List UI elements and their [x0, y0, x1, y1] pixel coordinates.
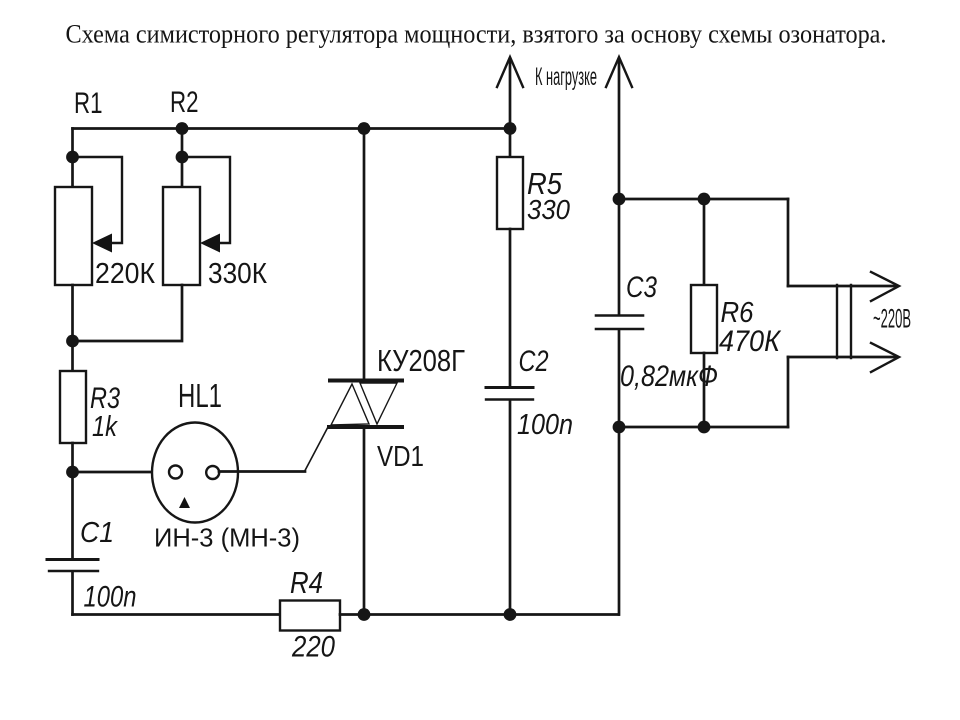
svg-text:C3: C3 [626, 271, 657, 304]
svg-text:100n: 100n [517, 409, 573, 441]
svg-text:К нагрузке: К нагрузке [535, 63, 597, 91]
arrow mains top [871, 272, 899, 301]
svg-text:220К: 220К [95, 258, 155, 290]
svg-text:100n: 100n [84, 581, 137, 614]
node triac bottom junction [358, 608, 371, 621]
wire right bus down [787, 199, 790, 286]
capacitor C3 bottom lead [618, 330, 621, 427]
resistor R5 body [497, 157, 523, 229]
capacitor C1 bottom lead [71, 572, 74, 615]
wire top bus [73, 127, 511, 130]
node triac top junction [358, 122, 371, 135]
arrow mains bottom [871, 343, 899, 372]
capacitor C3 [596, 316, 643, 330]
node R2 top junction [176, 122, 189, 135]
capacitor C1 top lead [71, 472, 74, 558]
svg-text:R4: R4 [290, 566, 323, 600]
svg-text:HL1: HL1 [178, 377, 222, 414]
R2 wiper [182, 157, 230, 253]
wire lamp left lead [73, 471, 171, 474]
mains connector [837, 285, 851, 358]
R1 wiper [73, 157, 123, 253]
svg-text:VD1: VD1 [377, 441, 424, 473]
resistor R6 top lead [703, 199, 706, 286]
capacitor C1 [47, 560, 98, 572]
capacitor C2 [486, 388, 533, 400]
resistor R4 body [280, 601, 340, 631]
node C3 top junction [613, 193, 626, 206]
wire R5 to C2 [509, 229, 512, 386]
svg-text:330: 330 [527, 194, 570, 225]
svg-text:330К: 330К [208, 258, 267, 290]
triac VD1 [329, 129, 402, 615]
resistor R3 body [60, 371, 86, 443]
svg-text:R2: R2 [170, 86, 199, 119]
wire mains top [788, 285, 896, 288]
node C3 bottom junction [613, 421, 626, 434]
resistor R6 body [691, 285, 717, 353]
node R3 top junction [66, 335, 79, 348]
wire triac gate diagonal [305, 427, 328, 471]
wire C3 to bottom bus [618, 427, 621, 615]
resistor R6 bottom lead [703, 353, 706, 427]
arrow to load left [497, 57, 523, 129]
wire R2 bottom to R1 branch [73, 285, 183, 341]
wire R5 top lead [509, 129, 512, 159]
svg-text:470К: 470К [719, 325, 782, 358]
svg-text:C1: C1 [80, 517, 114, 549]
svg-text:1k: 1k [92, 411, 118, 443]
neon lamp HL1 [152, 423, 238, 523]
capacitor C3 top lead [618, 199, 621, 314]
wire mains bottom [788, 356, 896, 359]
wire mains bottom down [787, 357, 790, 427]
node R1 wiper junction [66, 151, 79, 164]
wire R1 bottom lead [71, 285, 74, 342]
capacitor C2 bottom lead [509, 401, 512, 615]
node R6 top junction [698, 193, 711, 206]
node R2 wiper junction [176, 151, 189, 164]
svg-text:~220В: ~220В [873, 304, 911, 334]
potentiometer R2 top lead [181, 129, 184, 189]
svg-text:ИН-3 (МН-3): ИН-3 (МН-3) [154, 525, 300, 553]
wire bottom right bus [619, 426, 788, 429]
resistor R2 body [163, 187, 200, 285]
node C2 bottom junction [504, 608, 517, 621]
wire lamp right lead [219, 470, 305, 473]
svg-text:C2: C2 [519, 345, 549, 378]
svg-text:Схема симисторного регулятора: Схема симисторного регулятора мощности, … [66, 19, 887, 49]
wire R3 bottom lead [71, 443, 74, 472]
resistor R1 body [55, 187, 92, 285]
potentiometer R1 top lead [71, 129, 74, 189]
wire bottom bus left [73, 613, 281, 616]
svg-text:220: 220 [291, 631, 335, 664]
node R5 top junction [504, 122, 517, 135]
svg-text:КУ208Г: КУ208Г [377, 344, 465, 378]
node R6 bottom junction [698, 421, 711, 434]
wire bottom bus right [340, 613, 619, 616]
wire R3 top lead [71, 341, 74, 372]
wire top right bus [619, 198, 788, 201]
node gate junction [66, 466, 79, 479]
svg-text:R1: R1 [74, 87, 103, 120]
arrow to load right [606, 57, 632, 199]
